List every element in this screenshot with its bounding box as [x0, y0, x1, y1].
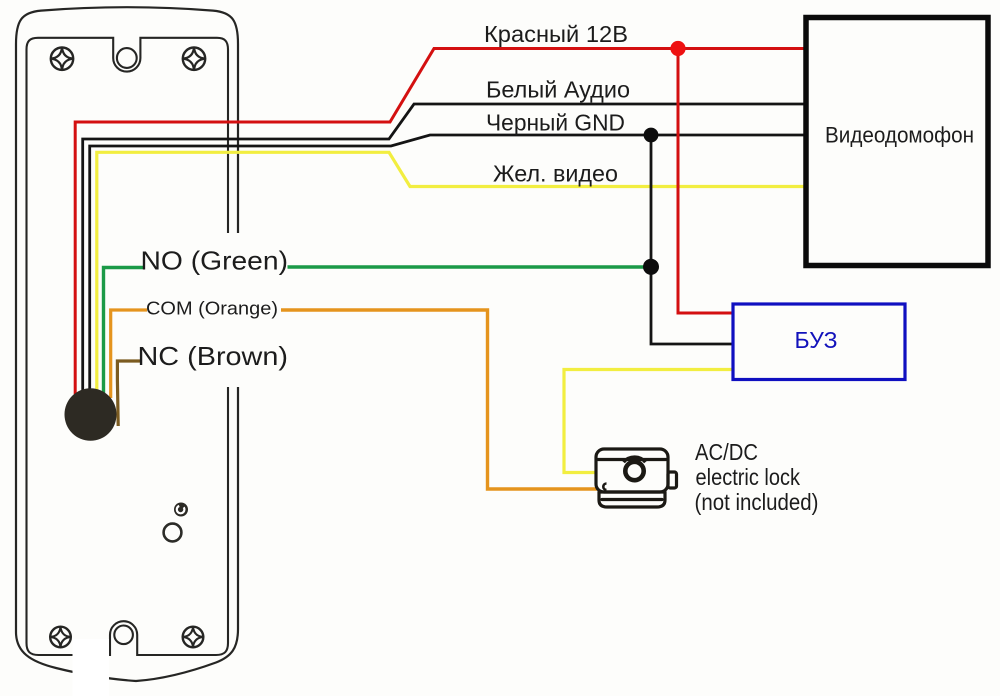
svg-text:(not included): (not included)	[695, 489, 819, 515]
small hole circle	[164, 524, 182, 542]
svg-text:COM (Orange): COM (Orange)	[146, 299, 278, 319]
white patch behind relay labels	[136, 233, 306, 387]
wire yellow video	[97, 152, 806, 400]
screw bottom-right	[182, 626, 204, 648]
svg-text:Черный GND: Черный GND	[486, 110, 625, 136]
box BUZ	[733, 304, 905, 380]
wire yellow BUZ to lock	[564, 370, 733, 473]
junction dot green-black	[643, 259, 659, 275]
wire green NO right segment	[288, 265, 652, 268]
junction dot red	[670, 41, 685, 56]
wire green NO left segment	[104, 268, 144, 396]
wire orange COM left segment	[111, 310, 147, 398]
microphone blob	[65, 388, 117, 441]
electric lock body	[596, 449, 677, 507]
svg-text:Красный 12В: Красный 12В	[484, 21, 628, 47]
svg-text:NO (Green): NO (Green)	[141, 246, 289, 276]
LED indicator dot	[174, 503, 188, 517]
electric lock small screw hole	[603, 484, 606, 490]
electric lock cylinder	[624, 457, 646, 480]
wire orange COM run to lock	[281, 310, 597, 489]
wire black branch to BUZ	[651, 135, 733, 344]
svg-text:electric lock: electric lock	[696, 464, 801, 490]
svg-text:Белый Аудио: Белый Аудио	[486, 77, 630, 103]
svg-text:AC/DC: AC/DC	[695, 439, 758, 465]
svg-text:Жел. видео: Жел. видео	[493, 161, 618, 187]
door station outer outline	[16, 7, 238, 681]
wire red branch to BUZ	[678, 49, 733, 314]
box videodomofon	[806, 18, 988, 266]
svg-text:БУЗ: БУЗ	[795, 327, 838, 353]
top bell hole circle	[117, 48, 137, 68]
svg-text:NC (Brown): NC (Brown)	[138, 341, 289, 371]
svg-text:Видеодомофон: Видеодомофон	[825, 123, 974, 148]
bottom keyhole circle	[114, 626, 133, 645]
wire red 12V	[75, 49, 806, 401]
screw bottom-left	[50, 626, 72, 648]
door station inner outline with top and bottom notches	[27, 38, 229, 655]
wire brown NC stub	[117, 361, 140, 426]
screw top-right	[182, 47, 206, 71]
wire white audio	[83, 104, 806, 400]
junction dot black GND	[644, 128, 659, 143]
white gap band at bottom	[73, 639, 110, 696]
wire black GND	[90, 135, 806, 400]
screw top-left	[50, 47, 74, 71]
